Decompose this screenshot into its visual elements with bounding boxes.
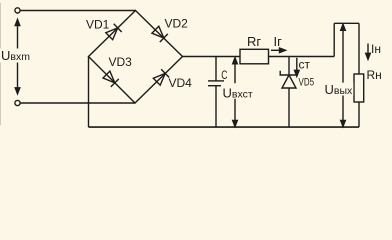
capacitor C plates [208, 80, 224, 82]
capacitor C branch top wire [215, 57, 217, 81]
zener VD5 branch top wire [288, 57, 290, 76]
svg-text:Uвхm: Uвхm [1, 48, 30, 63]
svg-text:Uвых: Uвых [325, 82, 354, 97]
bridge diamond [89, 11, 183, 104]
page left edge artifact [0, 3, 2, 125]
svg-text:Iн: Iн [371, 42, 381, 56]
svg-text:VD5: VD5 [299, 77, 315, 89]
wire Rn to bottom rail [358, 102, 360, 127]
wire top jog [334, 22, 359, 24]
arrow Uvx-st (rectified voltage) [234, 58, 236, 127]
arrow In (load current) [367, 44, 369, 60]
terminal bottom-left [15, 100, 20, 105]
label Uvyx [324, 83, 354, 96]
wire bottom rail [89, 126, 360, 128]
label Uvx-m [0, 49, 33, 63]
zener VD5 triangle [282, 75, 296, 88]
capacitor C branch bottom wire [215, 86, 217, 127]
svg-text:VD1: VD1 [86, 17, 110, 31]
svg-text:Rг: Rг [247, 34, 261, 49]
diode VD2 [152, 26, 164, 38]
wire bottom input [20, 102, 135, 104]
terminal top-left [15, 8, 20, 13]
svg-text:VD3: VD3 [109, 55, 133, 69]
wire riser left [333, 23, 335, 56]
svg-text:Iг: Iг [274, 34, 283, 49]
wire riser right [358, 23, 360, 74]
zener VD5 cathode bar with tick [280, 71, 296, 75]
resistor Rn box [354, 74, 364, 102]
wire left corner down [88, 57, 90, 128]
svg-text:ст: ст [299, 57, 311, 71]
svg-text:Uвхст: Uвхст [223, 86, 253, 101]
diode VD1 [106, 28, 118, 40]
diode VD4 [153, 73, 165, 85]
label Uvx-st [221, 83, 253, 99]
wire top input [20, 10, 135, 12]
svg-text:Rн: Rн [367, 68, 382, 82]
svg-text:VD4: VD4 [169, 76, 193, 90]
wire top rail left [183, 56, 241, 58]
zener VD5 branch bottom wire [288, 88, 290, 127]
wire top rail right [269, 56, 335, 58]
resistor Rr box [240, 49, 269, 64]
diode VD3 [103, 71, 115, 83]
svg-text:C: C [221, 68, 227, 82]
arrow Uvx-m (input voltage) [17, 20, 19, 94]
arrow Ir (resistor current) [271, 49, 286, 51]
svg-text:VD2: VD2 [165, 17, 189, 31]
arrow Ist (zener current) [296, 58, 298, 77]
arrow Uvyx (output voltage) [342, 24, 344, 126]
